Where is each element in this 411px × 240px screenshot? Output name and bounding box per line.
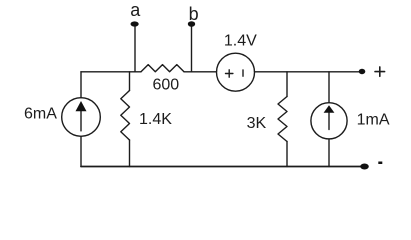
wire left branch upper [80,72,82,98]
voltage source minus bar [242,70,244,76]
wire 600 to voltage source [184,71,217,73]
svg-text:1.4K: 1.4K [139,111,172,128]
wire 1.4K branch lower [129,140,131,167]
minus terminal node dot [360,164,369,170]
svg-text:600: 600 [153,77,180,94]
resistor 600 zigzag [141,65,184,72]
wire voltage source to plus terminal [255,71,360,73]
svg-text:b: b [189,4,199,24]
resistor 3K zigzag [278,97,287,142]
voltage source plus sign [226,70,233,77]
node b dot [188,21,195,27]
svg-text:1mA: 1mA [357,112,390,129]
wire 1mA branch lower [328,139,330,167]
wire node a drop [134,26,136,72]
plus terminal sign [375,67,385,76]
wire top-left horizontal [81,71,141,73]
current source I2 arrowhead [324,105,335,113]
wire bottom rail [81,166,361,168]
current source I1 arrowhead [76,101,87,111]
wire 1.4K branch upper [129,72,131,91]
wire 1mA branch upper [328,72,330,103]
minus terminal sign [378,162,382,165]
svg-text:6mA: 6mA [24,105,57,122]
current source I1 6mA circle [62,98,101,137]
svg-text:a: a [130,0,141,20]
resistor 1.4K zigzag [121,91,130,141]
plus terminal node dot [359,69,366,74]
current source I2 arrow shaft [328,111,330,130]
wire left branch lower [80,136,82,166]
wire 3K branch lower [286,142,288,167]
svg-text:1.4V: 1.4V [224,33,257,50]
wire node b drop [191,27,193,72]
current source I1 arrow shaft [80,110,82,131]
node a dot [131,21,139,26]
voltage source V1 circle [217,53,255,91]
svg-text:3K: 3K [247,115,267,132]
wire 3K branch upper [286,72,288,97]
current source I2 1mA circle [311,103,347,139]
